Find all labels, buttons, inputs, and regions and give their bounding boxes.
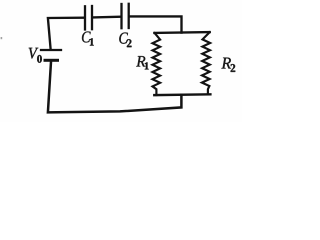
battery V0 top plate (long) <box>41 49 61 51</box>
resistor R2 zigzag <box>202 32 210 94</box>
label 1 of C1 <box>90 38 94 45</box>
capacitor C1 left plate <box>84 6 86 29</box>
label 1 of R1 <box>145 62 149 69</box>
capacitor C2 right plate <box>128 4 130 28</box>
label 2 of R2 <box>231 64 236 72</box>
label V of V0 <box>29 48 39 59</box>
capacitor C2 left plate <box>120 4 122 28</box>
wire top-left: corner to C1 left plate <box>48 18 84 49</box>
node rail: bottom rail of parallel R1 R2 <box>154 93 210 96</box>
label C of C2 <box>119 33 128 44</box>
label R of R1 <box>136 56 145 66</box>
battery V0 bottom plate (short thick) <box>45 59 58 62</box>
node rail: top rail of parallel R1 R2 <box>154 31 209 34</box>
scan speck at left edge <box>1 37 3 39</box>
capacitor C1 right plate <box>91 6 93 29</box>
label 0 of V0 <box>37 55 42 63</box>
label C of C1 <box>82 32 91 43</box>
wire C1 to C2 <box>93 16 121 19</box>
label 2 of C2 <box>127 39 132 47</box>
resistor R1 zigzag <box>153 33 161 95</box>
wire C2 to top-right corner, down to parallel rail <box>130 16 182 32</box>
wire battery negative down to bottom-left corner and bottom wire <box>48 62 182 113</box>
label R of R2 <box>221 58 231 69</box>
